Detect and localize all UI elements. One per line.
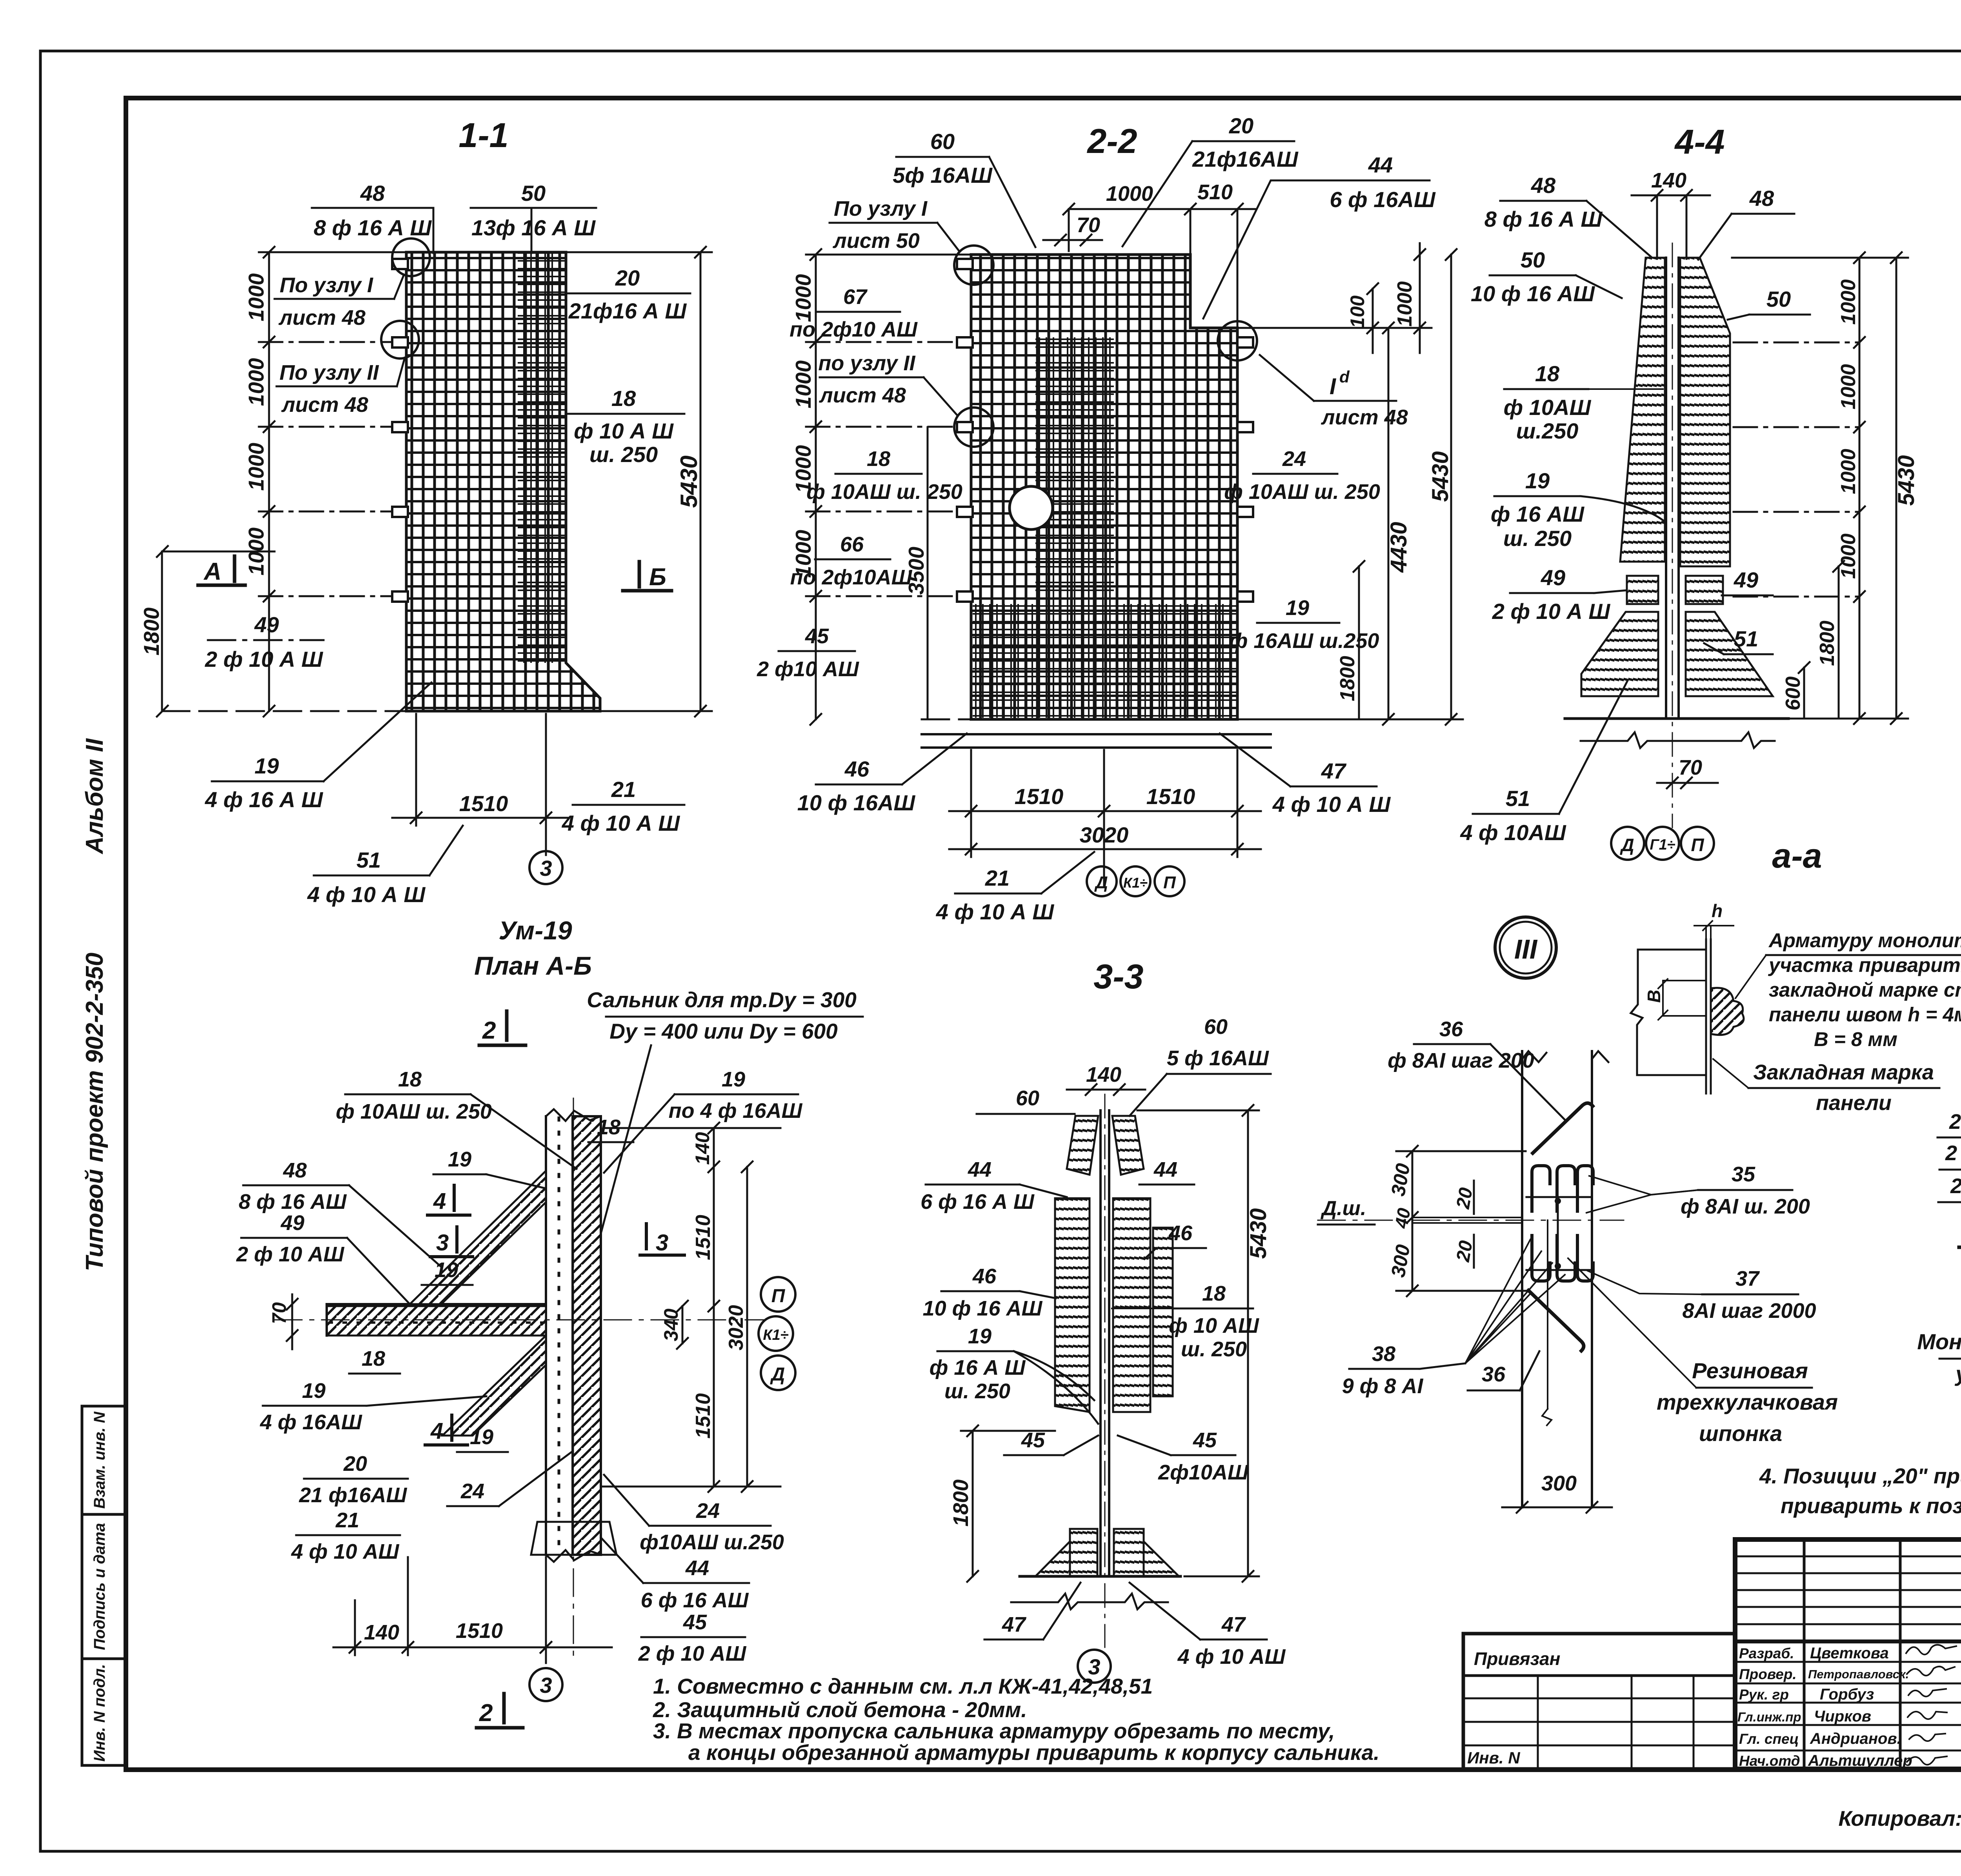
svg-text:67: 67 <box>843 285 868 309</box>
svg-text:лист 48: лист 48 <box>281 393 368 417</box>
svg-text:18: 18 <box>362 1347 385 1370</box>
detail III ties and pin <box>1526 1197 1590 1270</box>
svg-text:5430: 5430 <box>676 455 702 508</box>
svg-text:панели швом h = 4мм,: панели швом h = 4мм, <box>1769 1003 1961 1026</box>
section 1-1 left dim chain 1000x4 <box>259 247 408 717</box>
svg-text:h: h <box>1712 901 1723 921</box>
svg-text:3: 3 <box>540 1673 552 1698</box>
dim 3500 vertical <box>927 427 929 719</box>
svg-text:21: 21 <box>985 866 1010 890</box>
svg-text:5430: 5430 <box>1246 1208 1271 1259</box>
svg-text:47: 47 <box>1221 1613 1246 1636</box>
svg-text:18: 18 <box>1202 1282 1226 1305</box>
section 4-4 left hatched band <box>1620 258 1665 562</box>
svg-text:45: 45 <box>805 624 829 648</box>
dim label 20 / 21ф16АШ <box>568 266 687 323</box>
svg-text:приварить к поз.„45,47,49,51",: приварить к поз.„45,47,49,51", остальные… <box>1781 1494 1961 1518</box>
svg-text:Горбуз: Горбуз <box>1820 1686 1874 1703</box>
section 2-2 dense strips <box>1035 337 1114 718</box>
svg-text:Гл. спец: Гл. спец <box>1739 1731 1799 1747</box>
svg-text:19: 19 <box>968 1325 991 1348</box>
detail III wall verticals <box>1522 1051 1608 1507</box>
label 37 / 8АI шаг 2000 <box>1682 1267 1816 1323</box>
dim label 18 / ф10АШ ш.250 <box>574 386 674 467</box>
section 4-4 right hatched band <box>1680 258 1730 566</box>
svg-text:III: III <box>1514 934 1538 964</box>
svg-text:19: 19 <box>1286 596 1309 620</box>
label 24 / ф10АШ ш.250 <box>1224 447 1380 504</box>
dim label 49 / 2ф10АШ <box>205 612 324 671</box>
svg-text:20: 20 <box>1229 113 1253 138</box>
section 2-2 sleeve hole <box>1010 486 1053 530</box>
svg-text:6 ф 16 АШ: 6 ф 16 АШ <box>641 1589 749 1612</box>
svg-text:66: 66 <box>840 533 864 556</box>
section 4-4 base lines <box>1565 719 1788 748</box>
weld sub-detail panel <box>1631 939 1711 1094</box>
svg-text:П: П <box>1691 835 1704 855</box>
section marker Б <box>623 562 671 591</box>
svg-text:по 2ф10 АШ: по 2ф10 АШ <box>789 318 918 341</box>
title block outline <box>1463 1539 1961 1769</box>
section marker 3 upper <box>430 1227 473 1257</box>
section 1-1 right dim 5430 <box>566 247 712 717</box>
svg-text:ф 8АI ш. 200: ф 8АI ш. 200 <box>1681 1195 1810 1218</box>
dim label 48 / 8ф16АШ <box>314 181 432 240</box>
svg-text:4 ф 16АШ: 4 ф 16АШ <box>260 1410 362 1434</box>
section 4-4 splice bands <box>1627 576 1658 604</box>
svg-text:6 ф 16АШ: 6 ф 16АШ <box>1330 187 1436 212</box>
label 66 / по 2ф10АШ <box>790 533 913 589</box>
svg-text:44: 44 <box>685 1556 709 1580</box>
svg-text:1800: 1800 <box>1816 620 1839 666</box>
svg-text:1000: 1000 <box>791 274 815 322</box>
svg-text:21 ф16АШ: 21 ф16АШ <box>299 1483 407 1507</box>
label Закладная марка панели <box>1753 1061 1934 1115</box>
svg-text:по 2ф10АШ: по 2ф10АШ <box>790 566 913 589</box>
svg-text:48: 48 <box>1749 186 1774 211</box>
label 18 / ф10АШ ш.250 (2-2) <box>806 447 962 504</box>
plan centrelines <box>275 1319 765 1321</box>
svg-text:24: 24 <box>460 1479 484 1503</box>
svg-text:21ф16АШ: 21ф16АШ <box>1192 147 1299 171</box>
label 19 / ф16АШ ш.250 <box>1229 596 1379 653</box>
label 21 / 4ф10АШ (2-2 bottom) <box>936 866 1055 924</box>
svg-text:10 ф 16 АШ: 10 ф 16 АШ <box>923 1297 1043 1320</box>
svg-text:1510: 1510 <box>1146 784 1195 809</box>
svg-text:3020: 3020 <box>725 1305 748 1350</box>
section marker 4 upper <box>427 1185 470 1215</box>
svg-text:ф 10 АШ: ф 10 АШ <box>1169 1314 1259 1337</box>
svg-text:Д: Д <box>1094 873 1108 892</box>
svg-text:Петропавловск.: Петропавловск. <box>1808 1667 1909 1681</box>
svg-text:К1÷: К1÷ <box>763 1327 788 1343</box>
svg-text:100: 100 <box>1346 295 1368 328</box>
svg-text:3: 3 <box>656 1230 668 1256</box>
svg-text:70: 70 <box>1077 213 1100 237</box>
label 51 / 4ф10АШ bottom left <box>1460 786 1566 845</box>
svg-text:4 ф 10 А Ш: 4 ф 10 А Ш <box>307 882 426 907</box>
dim label 48 / 8ф16АШ (4-4) <box>1484 173 1603 231</box>
label 19 / ф16АШ / ш.250 (4-4) <box>1491 468 1584 551</box>
svg-text:по узлу II: по узлу II <box>818 351 915 375</box>
section marker А <box>198 556 245 585</box>
plan label 19 / 4ф16АШ <box>260 1379 362 1434</box>
plan label 18 / ф10АШ ш.250 <box>336 1068 492 1123</box>
svg-text:4430: 4430 <box>1386 522 1412 573</box>
plan label 21 / 4ф10АШ <box>291 1508 400 1563</box>
svg-text:2: 2 <box>479 1699 493 1727</box>
svg-text:3: 3 <box>436 1230 449 1256</box>
plan lower diagonal band <box>442 1336 546 1436</box>
section marker 3 right <box>640 1224 684 1256</box>
svg-text:Подпись и дата: Подпись и дата <box>91 1523 108 1650</box>
svg-text:20: 20 <box>343 1452 367 1476</box>
svg-text:140: 140 <box>1651 169 1686 192</box>
svg-text:Разраб.: Разраб. <box>1739 1645 1794 1661</box>
svg-text:2 ф10 АШ: 2 ф10 АШ <box>757 657 859 681</box>
plan label 49 / 2ф10АШ <box>236 1211 345 1266</box>
detail III left dims 300 40 300 <box>1396 1146 1526 1296</box>
plan label 48 / 8ф16АШ <box>239 1159 347 1214</box>
label 47 / 4ф10АШ <box>1272 759 1391 817</box>
svg-text:140: 140 <box>691 1132 713 1165</box>
svg-text:49: 49 <box>254 612 279 637</box>
plan horizontal wall strip <box>327 1304 546 1336</box>
svg-text:Сальник для тр.Dy = 300: Сальник для тр.Dy = 300 <box>587 988 857 1012</box>
svg-text:47: 47 <box>1002 1613 1027 1636</box>
svg-text:ф 10 А Ш: ф 10 А Ш <box>574 419 674 443</box>
dim 1510 bottom <box>392 714 569 855</box>
label 45 / 2ф10АШ (2-2 left) <box>757 624 859 681</box>
svg-text:45: 45 <box>1193 1428 1217 1452</box>
section 2-2 anchor stubs <box>957 259 1253 602</box>
section 3-3 top hatched bands <box>1067 1116 1098 1175</box>
svg-text:1510: 1510 <box>692 1393 715 1439</box>
svg-text:20: 20 <box>615 266 640 290</box>
svg-text:1510: 1510 <box>459 791 508 816</box>
svg-text:50: 50 <box>1766 287 1791 311</box>
label 19 / ф16АШ / ш.250 (3-3) <box>930 1325 1026 1403</box>
svg-text:Ум-19: Ум-19 <box>498 916 572 945</box>
svg-text:ф 8АI шаг 200: ф 8АI шаг 200 <box>1388 1049 1534 1072</box>
svg-text:5 ф 16АШ: 5 ф 16АШ <box>1167 1046 1269 1070</box>
svg-text:38: 38 <box>1372 1342 1395 1366</box>
svg-text:Арматуру монолитного: Арматуру монолитного <box>1768 929 1961 952</box>
svg-text:50: 50 <box>521 181 546 206</box>
svg-text:лист 48: лист 48 <box>819 384 906 407</box>
svg-text:4-4: 4-4 <box>1674 122 1725 161</box>
dim 5430 (3-3) <box>1137 1105 1259 1582</box>
svg-text:Рук. гр: Рук. гр <box>1739 1687 1789 1703</box>
svg-text:18: 18 <box>611 386 636 411</box>
svg-text:3020: 3020 <box>1080 822 1129 847</box>
dim label 44 / 6ф16АШ <box>1330 153 1436 212</box>
svg-text:В = 8 мм: В = 8 мм <box>1814 1028 1897 1050</box>
svg-text:Провер.: Провер. <box>1739 1666 1797 1682</box>
svg-text:300: 300 <box>1541 1472 1577 1495</box>
svg-text:35: 35 <box>1732 1163 1755 1186</box>
svg-text:51: 51 <box>1506 786 1530 811</box>
svg-text:36: 36 <box>1439 1017 1463 1041</box>
svg-text:6 ф 16 А Ш: 6 ф 16 А Ш <box>920 1190 1035 1214</box>
label 36 / ф8АI шаг 200 <box>1388 1017 1534 1072</box>
svg-text:Монолитный: Монолитный <box>1917 1329 1961 1354</box>
svg-text:5430: 5430 <box>1894 455 1919 506</box>
svg-text:1800: 1800 <box>1336 656 1359 701</box>
plan position circles П К1 Д <box>759 1277 795 1390</box>
svg-text:Д: Д <box>770 1364 785 1385</box>
svg-text:4 ф 10АШ: 4 ф 10АШ <box>1460 820 1566 845</box>
svg-text:а концы обрезанной арматуры пр: а концы обрезанной арматуры приварить к … <box>688 1740 1379 1765</box>
svg-text:50: 50 <box>1521 247 1545 272</box>
svg-text:ф 10АШ: ф 10АШ <box>1504 395 1592 420</box>
label Резиновая трехкулачковая шпонка <box>1657 1358 1838 1446</box>
svg-text:45: 45 <box>1021 1428 1045 1452</box>
svg-text:ф 16 АШ: ф 16 АШ <box>1491 502 1584 526</box>
svg-text:лист 50: лист 50 <box>832 229 920 253</box>
svg-text:4 ф 16 А Ш: 4 ф 16 А Ш <box>205 787 324 812</box>
svg-text:1510: 1510 <box>456 1619 503 1643</box>
svg-text:24: 24 <box>1282 447 1306 471</box>
svg-text:по 4 ф 16АШ: по 4 ф 16АШ <box>669 1099 803 1123</box>
plan label 19 / по 4ф16АШ <box>669 1068 803 1123</box>
svg-text:План А-Б: План А-Б <box>474 951 592 980</box>
svg-text:60: 60 <box>1204 1015 1228 1039</box>
svg-text:19: 19 <box>302 1379 326 1403</box>
position circle 3 (3-3) <box>1078 1650 1111 1683</box>
svg-text:140: 140 <box>364 1621 399 1644</box>
svg-text:36: 36 <box>1482 1363 1506 1386</box>
svg-text:19: 19 <box>722 1068 745 1091</box>
svg-text:ф 16 А Ш: ф 16 А Ш <box>930 1356 1026 1379</box>
svg-text:Привязан: Привязан <box>1474 1649 1560 1669</box>
weld note text <box>1768 929 1961 1050</box>
svg-text:4 ф 10 А Ш: 4 ф 10 А Ш <box>562 811 680 835</box>
svg-text:Г1÷: Г1÷ <box>1650 837 1675 853</box>
svg-text:2 ф 10 А Ш: 2 ф 10 А Ш <box>205 647 324 671</box>
position circles Д Г1 П (4-4) <box>1611 827 1714 860</box>
svg-text:8 ф 16 АШ: 8 ф 16 АШ <box>239 1190 347 1214</box>
svg-text:1000: 1000 <box>1837 449 1860 494</box>
svg-text:1510: 1510 <box>692 1215 715 1260</box>
dim label 21 / 4ф10АШ <box>562 777 680 835</box>
dim label 60 / 5ф16АШ top left <box>893 129 993 187</box>
svg-text:60: 60 <box>930 129 955 154</box>
svg-text:2 ф 10АШ: 2 ф 10АШ <box>1945 1141 1961 1165</box>
plan right dim chains <box>602 1123 780 1492</box>
svg-text:21: 21 <box>611 777 636 802</box>
position circles Д К1 П <box>1087 866 1184 896</box>
svg-text:Чирков: Чирков <box>1814 1708 1871 1725</box>
svg-text:Цветкова: Цветкова <box>1810 1645 1889 1662</box>
svg-text:Взам. инв. N: Взам. инв. N <box>91 1411 108 1508</box>
section marker 4 lower <box>425 1415 468 1445</box>
svg-text:3: 3 <box>1088 1654 1100 1679</box>
label 67 / по 2ф10 АШ <box>789 285 918 341</box>
svg-text:Инв. N подл.: Инв. N подл. <box>91 1664 108 1762</box>
svg-text:П: П <box>1163 873 1176 892</box>
svg-text:2ф16АШ: 2ф16АШ <box>1949 1110 1961 1134</box>
svg-text:2 ф 10 АШ: 2 ф 10 АШ <box>638 1642 747 1665</box>
section 1-1 rebar grid block <box>406 252 600 711</box>
section 3-3 centre verticals <box>1101 1094 1109 1647</box>
svg-text:4 ф 10 А Ш: 4 ф 10 А Ш <box>936 899 1055 924</box>
svg-text:П: П <box>771 1286 786 1306</box>
svg-text:70: 70 <box>1679 756 1702 779</box>
svg-text:46: 46 <box>972 1265 997 1288</box>
section 2-2 left dim chain <box>806 249 973 725</box>
dim 1800 (3-3) <box>961 1425 1055 1582</box>
section 4-4 wall centre lines <box>1666 243 1679 828</box>
label 46 / 10ф16АШ <box>797 757 916 815</box>
svg-text:2-2: 2-2 <box>1086 122 1137 160</box>
svg-text:Андрианов.: Андрианов. <box>1810 1730 1901 1747</box>
dim label 19 / 4ф16АШ <box>205 753 324 812</box>
svg-text:В: В <box>1644 990 1664 1003</box>
svg-text:10 ф 16АШ: 10 ф 16АШ <box>797 790 916 815</box>
callout по узлу II лист 48 <box>818 351 915 407</box>
margin stamp boxes <box>82 1406 126 1765</box>
plan bottom dims 140 1510 <box>333 1557 612 1663</box>
svg-text:47: 47 <box>1321 759 1347 783</box>
svg-text:8 ф 16 А Ш: 8 ф 16 А Ш <box>1484 207 1603 231</box>
detail III diagonal bars <box>1528 1103 1593 1351</box>
svg-text:2: 2 <box>482 1017 496 1044</box>
svg-text:2 ф 10 АШ: 2 ф 10 АШ <box>236 1243 345 1266</box>
svg-text:лист 48: лист 48 <box>278 306 366 329</box>
title block role labels <box>1737 1645 1801 1769</box>
svg-text:А: А <box>203 558 222 585</box>
svg-text:48: 48 <box>360 181 385 206</box>
svg-text:49: 49 <box>280 1211 304 1235</box>
svg-text:1000: 1000 <box>1837 279 1860 325</box>
dim label 51 / 4ф10АШ <box>307 848 426 907</box>
svg-text:19: 19 <box>1525 468 1550 493</box>
svg-text:140: 140 <box>1086 1063 1121 1086</box>
svg-text:Резиновая: Резиновая <box>1692 1358 1808 1383</box>
svg-text:2ф14АШ: 2ф14АШ <box>1950 1174 1961 1198</box>
svg-text:1000: 1000 <box>1837 533 1860 579</box>
plan label 20 / 21ф16АШ <box>299 1452 407 1507</box>
section 1-1 anchor stubs <box>392 259 408 602</box>
svg-text:d: d <box>1339 368 1350 386</box>
svg-text:1000: 1000 <box>244 358 268 406</box>
svg-text:1. Совместно с данным см. л.л: 1. Совместно с данным см. л.л КЖ-41,42,4… <box>653 1674 1153 1698</box>
svg-text:Д.ш.: Д.ш. <box>1321 1197 1366 1220</box>
detail III C-shaped keys upper <box>1532 1166 1593 1211</box>
detail III C-shaped keys lower <box>1532 1236 1593 1281</box>
svg-text:44: 44 <box>1153 1158 1177 1181</box>
svg-text:18: 18 <box>398 1068 422 1091</box>
svg-text:Инв. N: Инв. N <box>1467 1749 1521 1767</box>
svg-text:а-а: а-а <box>1772 836 1822 875</box>
title block signatures <box>1906 1645 1961 1765</box>
callout По узлу II лист 48 <box>280 361 379 417</box>
svg-text:19: 19 <box>255 753 279 778</box>
svg-text:4 ф 10 АШ: 4 ф 10 АШ <box>1177 1645 1286 1669</box>
svg-text:48: 48 <box>283 1159 307 1182</box>
svg-text:21: 21 <box>335 1508 359 1532</box>
svg-text:4 ф 10 АШ: 4 ф 10 АШ <box>291 1540 400 1563</box>
svg-text:1800: 1800 <box>949 1479 973 1527</box>
svg-text:Dy = 400 или Dy = 600: Dy = 400 или Dy = 600 <box>609 1019 838 1043</box>
svg-text:2ф10АШ: 2ф10АШ <box>1158 1461 1249 1484</box>
svg-text:18: 18 <box>867 447 890 471</box>
svg-text:К1÷: К1÷ <box>1123 875 1148 891</box>
svg-text:По узлу I: По узлу I <box>280 273 373 297</box>
svg-text:19: 19 <box>435 1258 458 1282</box>
section 1-1 dense right strip <box>518 252 566 663</box>
svg-text:19: 19 <box>448 1148 471 1171</box>
svg-text:ш. 250: ш. 250 <box>1503 526 1572 551</box>
label 46 / 10ф16АШ (3-3) <box>923 1265 1043 1320</box>
plan position circle 3 <box>529 1668 562 1701</box>
detail III leader fan <box>1465 1239 1565 1363</box>
svg-text:1000: 1000 <box>791 360 815 408</box>
svg-text:45: 45 <box>683 1610 707 1634</box>
section marker 4 (detail II) <box>1959 1218 1961 1247</box>
weld blob <box>1711 988 1744 1035</box>
svg-text:4: 4 <box>430 1418 443 1444</box>
dim 1000 / 510 top <box>1063 204 1255 328</box>
svg-text:трехкулачковая: трехкулачковая <box>1657 1390 1838 1414</box>
svg-text:1000: 1000 <box>1393 281 1416 327</box>
svg-text:1-1: 1-1 <box>458 116 508 155</box>
svg-text:46: 46 <box>1168 1221 1193 1245</box>
section marker 2 bottom <box>477 1694 523 1728</box>
label 38 / 9ф8АI <box>1342 1342 1424 1398</box>
section marker 2 top <box>479 1011 526 1045</box>
detail III joint lines <box>1412 1217 1522 1218</box>
callout По узлу I лист 50 <box>832 197 928 253</box>
svg-text:Закладная марка: Закладная марка <box>1753 1061 1934 1084</box>
label 44 / 6ф16АШ (3-3) <box>920 1158 1035 1214</box>
dim label 20 / 21ф16АШ top <box>1192 113 1299 171</box>
svg-text:I: I <box>1330 374 1337 399</box>
section 2-2 foundation slab <box>922 719 1271 748</box>
plan upper diagonal band <box>410 1171 546 1304</box>
svg-text:Альбом II: Альбом II <box>81 738 108 855</box>
svg-text:3500: 3500 <box>904 546 928 595</box>
svg-text:1000: 1000 <box>1837 364 1860 409</box>
section 3-3 bottom bands <box>1070 1529 1097 1576</box>
callout По узлу I лист 48 <box>278 273 373 329</box>
svg-text:49: 49 <box>1541 565 1565 590</box>
svg-text:1000: 1000 <box>244 273 268 321</box>
svg-text:600: 600 <box>1782 677 1805 711</box>
svg-text:10 ф 16 АШ: 10 ф 16 АШ <box>1471 281 1595 306</box>
plan vertical wall strip <box>546 1109 601 1562</box>
svg-text:60: 60 <box>1016 1086 1039 1110</box>
svg-text:шпонка: шпонка <box>1699 1421 1782 1446</box>
section 4-4 foundation blocks <box>1581 612 1658 696</box>
svg-text:ш. 250: ш. 250 <box>944 1379 1010 1403</box>
plan label 45 / 2ф10АШ <box>638 1610 747 1665</box>
svg-text:Б: Б <box>649 564 666 591</box>
svg-text:Д: Д <box>1619 835 1634 855</box>
section 2-2 rebar grid block <box>971 255 1237 719</box>
svg-text:18: 18 <box>1535 361 1560 386</box>
svg-text:48: 48 <box>1531 173 1556 198</box>
svg-text:1800: 1800 <box>139 607 164 655</box>
svg-text:51: 51 <box>1734 626 1758 651</box>
svg-text:4. Позиции „20" приварить к по: 4. Позиции „20" приварить к поз... 44,46… <box>1759 1464 1961 1488</box>
svg-text:ф 10АШ ш. 250: ф 10АШ ш. 250 <box>336 1100 492 1123</box>
section 4-4 right dim chain <box>1732 252 1908 724</box>
svg-text:ш. 250: ш. 250 <box>589 442 658 467</box>
svg-text:9 ф 8 АI: 9 ф 8 АI <box>1342 1374 1424 1398</box>
svg-text:закладной марке стеновой: закладной марке стеновой <box>1769 979 1961 1001</box>
